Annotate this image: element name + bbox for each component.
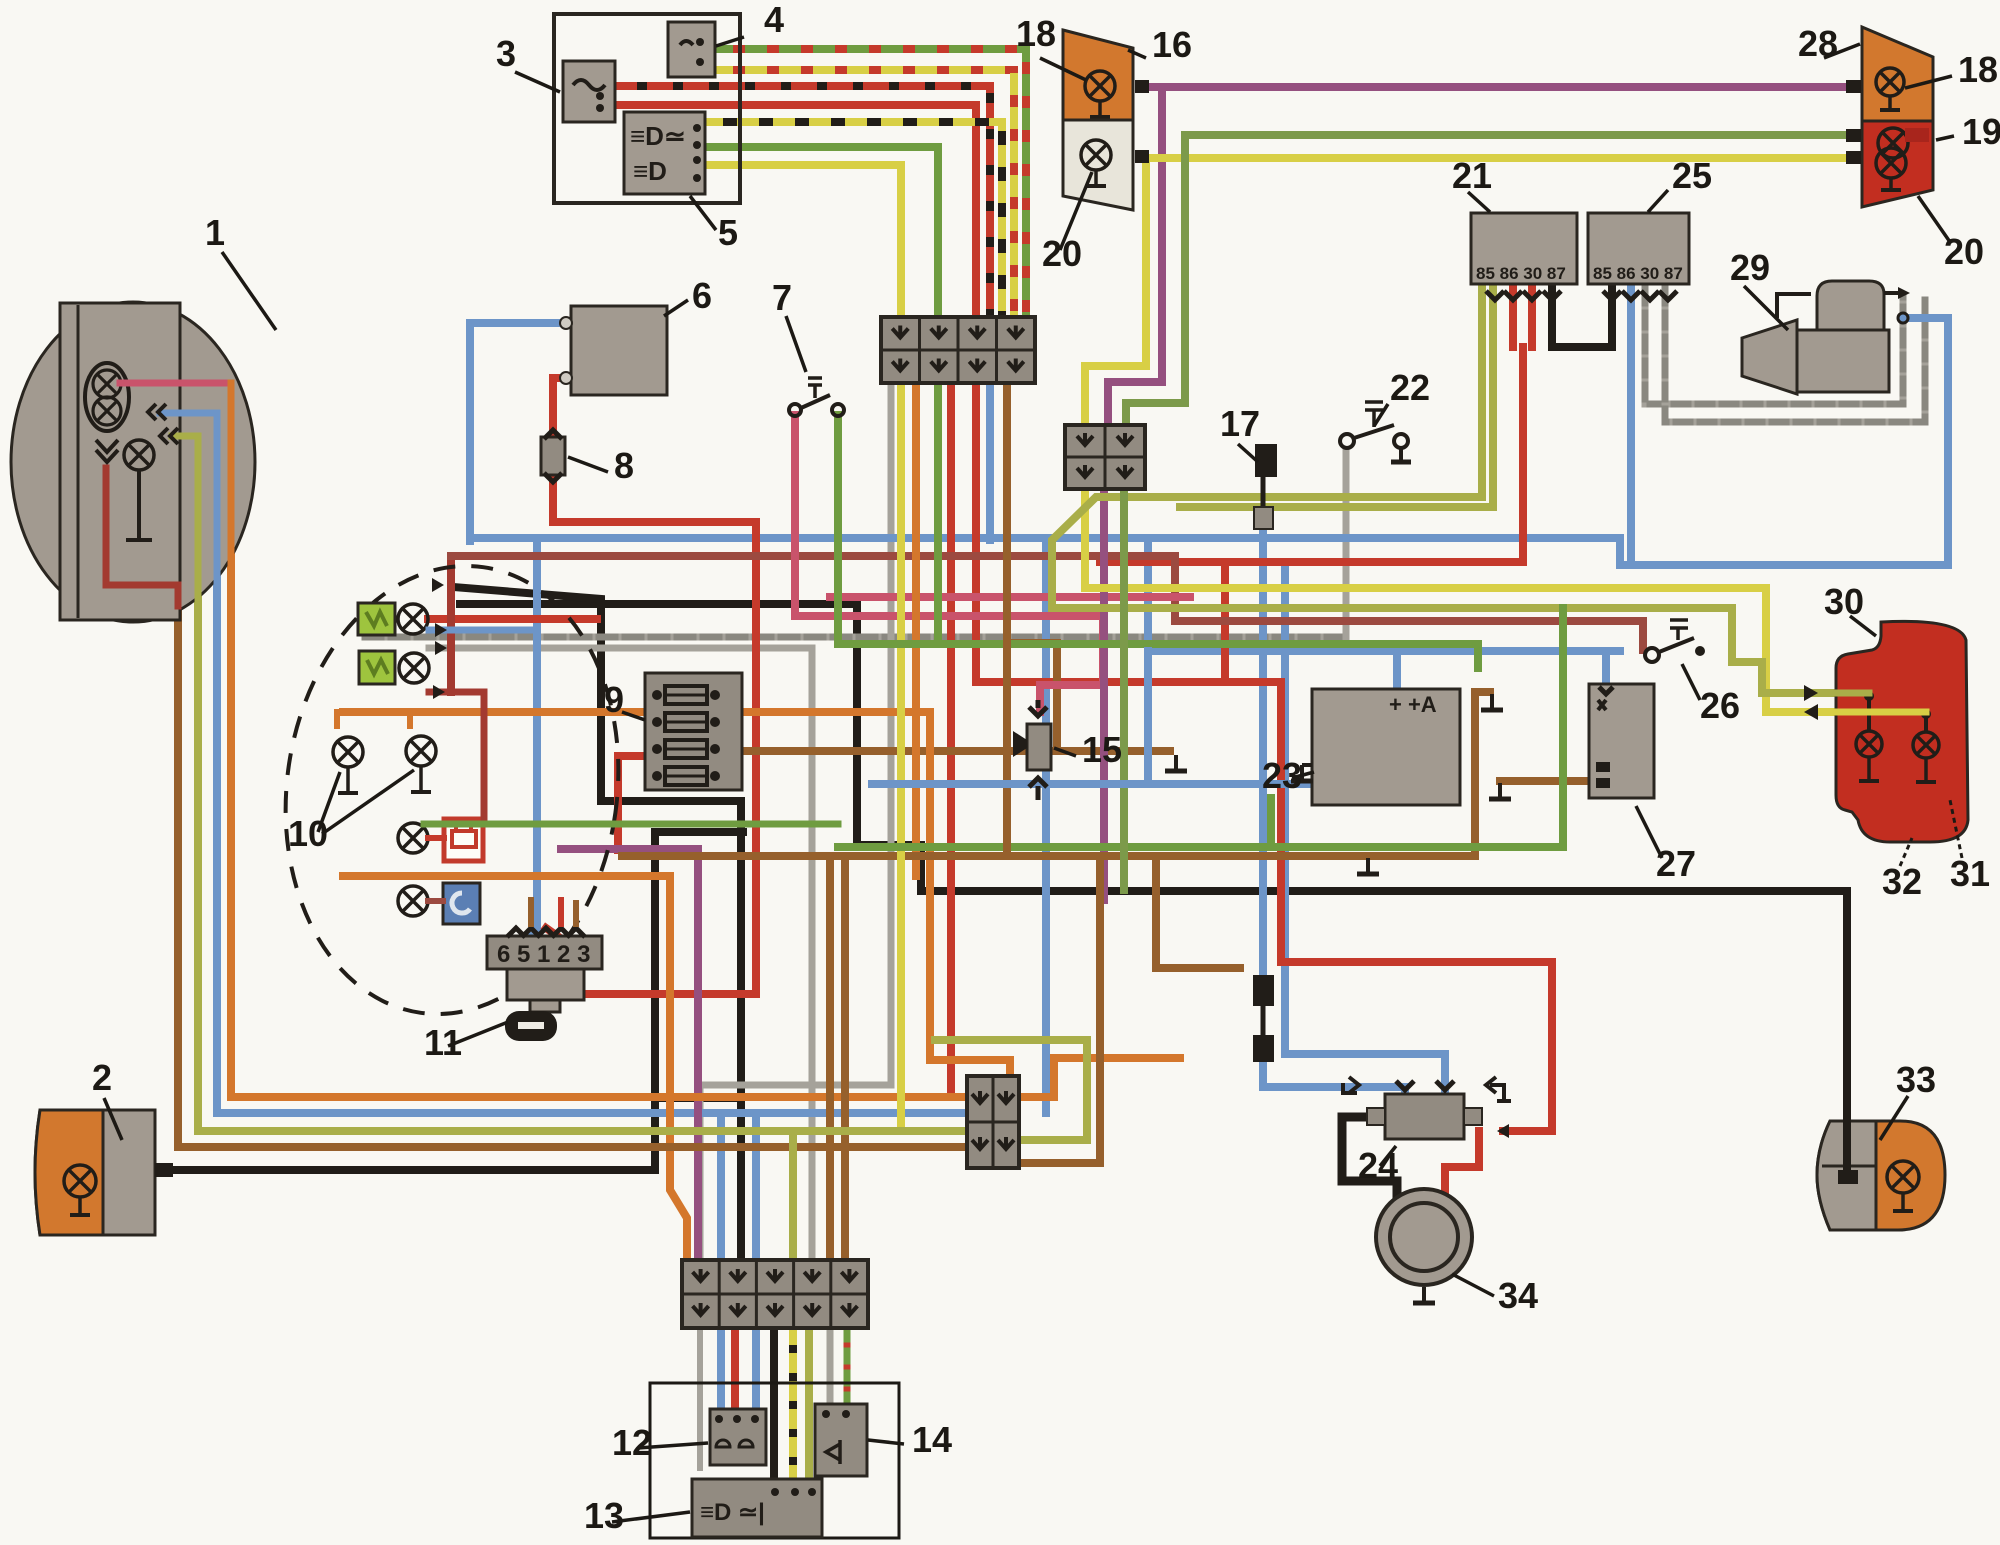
svg-text:27: 27 (1656, 843, 1696, 884)
wire olive relay 21 drop 2 (1180, 289, 1493, 507)
svg-text:14: 14 (912, 1419, 952, 1460)
svg-text:6: 6 (692, 275, 712, 316)
wire purple horizontal (561, 845, 698, 853)
fuel wire arrows (1804, 685, 1818, 720)
wire orange right of connector D (1019, 1058, 1180, 1097)
wire black-red dashed (615, 86, 990, 317)
svg-text:8: 8 (614, 445, 634, 486)
wire red to charge indicator (429, 692, 484, 819)
wire blue connector C col4 (752, 1113, 760, 1416)
ground near battery 27 (1489, 783, 1511, 799)
wire blue mid horizontal (872, 780, 1350, 788)
svg-text:85 86 30 87: 85 86 30 87 (1476, 264, 1566, 283)
fuse block 9 (645, 673, 742, 790)
svg-text:1: 1 (205, 212, 225, 253)
wire blue mid riser (1144, 651, 1152, 784)
wire red box3 feed (615, 105, 976, 317)
wire green switch 7 to coil (838, 415, 1478, 668)
svg-text:29: 29 (1730, 247, 1770, 288)
wire blue fuse line to regulator (1259, 531, 1267, 979)
battery 27 (1589, 684, 1654, 798)
tail lamp 33 (1817, 1121, 1945, 1230)
svg-text:31: 31 (1950, 853, 1990, 894)
connector block A (881, 317, 1035, 383)
svg-text:25: 25 (1672, 155, 1712, 196)
wire olive inside headlight (172, 436, 198, 645)
indicator green 1 (358, 603, 395, 635)
wire orange inside headlight (228, 383, 235, 645)
wire black-yellow dashed to headlamp (789, 1329, 797, 1496)
wire brown battery ground link (1500, 777, 1592, 785)
wire gray relay 25 to starter 2 (1665, 289, 1925, 422)
wire maroon oil lamp stub (428, 898, 443, 904)
svg-text:20: 20 (1042, 233, 1082, 274)
tail terminals (1846, 80, 1861, 164)
wire green below connector B (1120, 490, 1128, 890)
wire red relay 21 30 (1528, 289, 1536, 347)
horn button 14 (815, 1404, 867, 1476)
wire brown headlight to connector D (178, 609, 967, 1147)
charge indicator box (444, 819, 483, 861)
svg-text:18: 18 (1016, 13, 1056, 54)
wire darkred inside headlight (106, 468, 178, 606)
wire black-yellow dashed (705, 122, 1002, 317)
wire brown stub2 switch 11 (573, 903, 579, 924)
wire purple turn lamp 16 to 28 (1148, 83, 1846, 91)
indicator green 2 (359, 651, 395, 684)
wire black branch to connector C (655, 1094, 741, 1102)
wire yellow inside tank (1836, 709, 1926, 716)
svg-text:21: 21 (1452, 155, 1492, 196)
svg-text:20: 20 (1944, 231, 1984, 272)
wire yellow connector A col1 drop (897, 385, 905, 1131)
connector block C (682, 1260, 868, 1328)
relay 21 (1471, 213, 1577, 284)
wire black harness to connector C (453, 587, 741, 1262)
wire black into lamp 33 (1838, 1121, 1858, 1184)
relay box 6 (571, 306, 667, 395)
wire blue headlight to bus (150, 413, 967, 1113)
beam box 5 icons (630, 121, 701, 186)
wire olive riser connector C (789, 1133, 797, 1262)
svg-text:≡D ≃|: ≡D ≃| (700, 1499, 765, 1526)
wire olive inside tank (1836, 690, 1869, 697)
wire blue drop to coil 23 (1393, 651, 1401, 687)
relay 25 pins (1603, 291, 1677, 300)
wire green loop near battery (838, 608, 1563, 847)
wire blue relay 25 drop (1627, 289, 1635, 565)
wire gray dashed bus (365, 634, 1346, 641)
ground on brown feed (1165, 755, 1187, 771)
svg-text:13: 13 (584, 1495, 624, 1536)
wire green tail lamp run (1126, 135, 1846, 427)
svg-text:19: 19 (1962, 111, 2000, 152)
indicator lamp 1 (398, 604, 428, 634)
wire red instrument riser (447, 556, 455, 692)
wire olive to headlamp switch (805, 1329, 813, 1496)
svg-text:15: 15 (1082, 729, 1122, 770)
svg-text:26: 26 (1700, 685, 1740, 726)
wire brown drop from engine bus (1156, 858, 1240, 968)
wire red charge lamp stub (428, 835, 444, 841)
wire pink switch 7 drop (795, 415, 1103, 685)
wire black regulator to generator (1342, 1117, 1397, 1200)
tail lamp 19 (1862, 121, 1933, 207)
wire red branch to feed (1221, 562, 1229, 682)
speedo lamps 10 (333, 736, 436, 793)
wire red-green dashed (715, 49, 1026, 317)
wire black relay jumper 87-85 (1552, 289, 1612, 347)
wire red fuse 8 to ignition switch (546, 472, 756, 994)
ground on engine bus (1357, 858, 1379, 874)
wire blue connector A col5 drop (986, 385, 994, 540)
svg-text:17: 17 (1220, 403, 1260, 444)
svg-text:22: 22 (1390, 367, 1430, 408)
beam box 5 (624, 112, 705, 194)
wire gray switch 22 drop (1343, 450, 1350, 637)
wire blue indicator feed (429, 627, 537, 634)
svg-text:85 86 30 87: 85 86 30 87 (1593, 264, 1683, 283)
turn signal 16 (1063, 30, 1133, 120)
relay 21 pins (1486, 291, 1561, 300)
regulator 24 terminals (1343, 1077, 1511, 1125)
wire orange near connector D (930, 1060, 1010, 1078)
wire blue drop to ignition switch (524, 541, 537, 936)
ground near coil 23 (1481, 694, 1503, 710)
kill switch 26 (1645, 620, 1705, 662)
wire green through charge box (424, 821, 838, 828)
svg-text:5: 5 (718, 212, 738, 253)
wire orange connector A col2 drop (912, 385, 920, 876)
wire olive relay 21 drop (1052, 289, 1869, 693)
wire green box5 feed (705, 147, 938, 317)
svg-text:3: 3 (496, 33, 516, 74)
wire brown right of connector D (1024, 856, 1100, 1163)
wire maroon main bus (451, 552, 1175, 560)
turn signal 2 (35, 1110, 155, 1235)
wire red regulator to generator (1445, 1131, 1479, 1196)
wire red to lighting switch 12 (731, 1329, 739, 1416)
wire brown fuse box feed (742, 747, 1170, 755)
position lamp 20 housing (1063, 120, 1133, 210)
wire purple riser connector C (694, 849, 702, 1262)
connector arrow on red feed (1497, 1124, 1509, 1138)
pilot box 4 icon (680, 38, 704, 66)
wire brown connector A col6 drop (1003, 385, 1011, 856)
speedometer enclosure (554, 14, 740, 203)
handlebar group outline (650, 1383, 899, 1538)
wire red stub switch 11 (558, 900, 564, 924)
wire arrows headlight (148, 404, 178, 444)
wire brown riser C col9 (841, 858, 849, 1262)
box 6 terminals (560, 317, 572, 384)
wire orange riser mid (926, 712, 934, 1060)
wire yellow box5 feed (705, 165, 901, 317)
terminal 16 (1135, 80, 1149, 163)
wire orange instrument bus 1 (343, 708, 930, 716)
charge lamp (398, 823, 428, 853)
turn signal 28 (1862, 27, 1933, 121)
turn signal 16 bulb (1085, 71, 1115, 117)
svg-text:34: 34 (1498, 1275, 1538, 1316)
svg-text:30: 30 (1824, 581, 1864, 622)
connector 17 (1254, 444, 1277, 529)
wire brown engine bus (622, 692, 1490, 856)
wire brown jog (1007, 643, 1057, 751)
switch 22 (1340, 402, 1411, 462)
ignition switch 11 body (507, 969, 584, 1012)
svg-text:≡D: ≡D (633, 156, 667, 186)
wire black from turn signal 2 (175, 832, 743, 1170)
svg-text:2: 2 (92, 1057, 112, 1098)
svg-text:32: 32 (1882, 861, 1922, 902)
svg-text:28: 28 (1798, 23, 1838, 64)
wire orange headlight loop (231, 383, 967, 1097)
fuel tank 30 (1836, 621, 1968, 842)
svg-text:16: 16 (1152, 24, 1192, 65)
connector block D (967, 1076, 1019, 1168)
relay 25 (1588, 213, 1689, 284)
wire blue inside headlight (160, 413, 217, 645)
wire red relay drop (1100, 347, 1523, 562)
wire red-green dashed to horn (844, 1329, 851, 1416)
wire red-yellow dashed (715, 70, 1014, 317)
svg-text:33: 33 (1896, 1059, 1936, 1100)
wire gray connector A col1 drop (700, 385, 891, 1262)
wire black ground bus to rear lamp (460, 604, 1847, 1180)
wire green battery stub (1267, 798, 1275, 847)
generator 34 (1376, 1189, 1472, 1303)
pilot box 3 icon (573, 80, 605, 112)
regulator 24 (1385, 1094, 1464, 1139)
headlight pilot lamp (124, 440, 154, 540)
wire orange instrument bus 2 (343, 876, 687, 1262)
wire red connector A col3 drop (947, 385, 955, 1095)
fuse elements 9 (652, 686, 720, 785)
wire red box6 to fuse 8 (553, 378, 571, 440)
wire gray relay 25 to starter 1 (1645, 289, 1903, 404)
wire maroon to ignition cutout switch 26 (1175, 556, 1643, 650)
wire brown riser C col8 (826, 858, 834, 1262)
wire blue box6 to instrument (470, 323, 571, 541)
wire blue connector C col2 (717, 1113, 725, 1416)
lighting switch 12 (710, 1409, 766, 1465)
wire blue fuse line lower (1263, 1059, 1405, 1094)
turn signal 2 terminal (155, 1163, 173, 1177)
turn signal 28 bulb (1876, 68, 1904, 110)
oil indicator box (443, 883, 480, 924)
battery 27 terminals (1596, 687, 1613, 788)
dimmer switch 13 (692, 1479, 822, 1537)
wire red relay 21 86 (1509, 289, 1517, 347)
wire black headlamp switch riser (770, 1329, 778, 1496)
svg-text:7: 7 (772, 277, 792, 318)
wire purple below connector B (1100, 490, 1108, 900)
wire yellow to fuel gauge lamp (1085, 490, 1926, 712)
wire gray to horn button (827, 1329, 834, 1416)
svg-text:4: 4 (764, 0, 784, 40)
svg-text:+ +A: + +A (1389, 692, 1437, 717)
wire blue main bus to starter (470, 318, 1948, 565)
fuel tank lamps (1856, 691, 1939, 782)
oil lamp (398, 886, 428, 916)
turn signal 2 bulb (64, 1165, 96, 1215)
wire pink horizontal (830, 593, 1190, 601)
fuse holder on regulator feed (1253, 975, 1274, 1062)
cluster connector arrows (432, 578, 447, 699)
wire green connector A col2 (934, 385, 942, 644)
svg-text:9: 9 (604, 679, 624, 720)
svg-text:6 5 1 2 3: 6 5 1 2 3 (497, 941, 590, 968)
wire brown stub switch 11 (528, 900, 534, 924)
pilot box 3 (563, 61, 615, 122)
wire blue to regulator (1285, 565, 1445, 1094)
position lamp 20 bulb (1081, 140, 1111, 186)
wire blue drop to battery 27 (1602, 651, 1610, 682)
wire purple to connector B (1108, 87, 1162, 427)
tail lamp 19 bulbs (1876, 128, 1929, 190)
wire red fuse box left loop (618, 756, 645, 850)
connector block B (1065, 425, 1145, 489)
tail lamp 33 bulb (1887, 1161, 1919, 1211)
switch 7 (789, 378, 844, 416)
coil 23 marks (1291, 692, 1437, 781)
wire gray riser connector C (809, 648, 816, 1262)
fuse 8 (541, 430, 565, 482)
wire red instrument loop (428, 615, 597, 623)
wire olive right of connector D (935, 1040, 1087, 1140)
ignition coil 23 (1312, 689, 1460, 805)
starter 29 (1742, 281, 1889, 394)
wire blue battery feed (1148, 542, 1620, 651)
ignition switch key (505, 1011, 557, 1041)
indicator lamp 2 (399, 653, 429, 683)
instrument cluster outline (257, 544, 646, 1036)
headlight 1 (11, 302, 255, 622)
wire orange lamp stubs (337, 712, 410, 726)
wire blue riser to main blue bus (1042, 541, 1050, 1113)
svg-text:≡D≃: ≡D≃ (630, 121, 686, 151)
headlight bulb (85, 363, 129, 462)
brake switch 15 (1013, 700, 1051, 800)
wire yellow tail lamp run (1085, 158, 1846, 427)
wire gray instrument to connector C (429, 645, 812, 652)
wire pink headlight lamp (120, 380, 231, 387)
starter terminals (1884, 287, 1910, 323)
ignition switch 11 block (487, 936, 602, 969)
wire olive headlight loop (150, 436, 967, 1131)
svg-text:18: 18 (1958, 49, 1998, 90)
ignition switch arrows (507, 928, 585, 937)
svg-text:12: 12 (612, 1422, 652, 1463)
wire red main feed down (976, 385, 1552, 1131)
wire pink stub to switch 15 (1036, 685, 1044, 712)
wire gray to dimmer switch (697, 1329, 703, 1468)
ignition switch numbers (497, 941, 590, 968)
pilot box 4 (668, 22, 715, 77)
